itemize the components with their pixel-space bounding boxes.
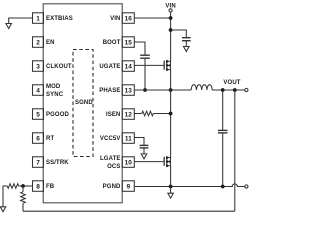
terminal VOUT [245, 88, 248, 91]
pin 15 box [122, 37, 134, 48]
ground symbol at VCC5V cap [141, 154, 147, 159]
svg-text:SYNC: SYNC [46, 92, 64, 98]
capacitor C4 (output) [218, 130, 228, 133]
wire VCC5V cap to ground [143, 148, 145, 154]
svg-text:SS/TRK: SS/TRK [46, 160, 69, 166]
wire inductor to VOUT terminal [212, 89, 245, 91]
ground SGND symbol at FB divider [0, 207, 6, 212]
wire FB resistor to ground [3, 186, 7, 207]
node VOUT cap junction [221, 88, 225, 92]
wire FB line [19, 185, 33, 187]
wire output cap top [222, 90, 224, 130]
svg-text:EN: EN [46, 40, 55, 46]
node boot cap phase junction [143, 88, 147, 92]
pin 9 box [122, 181, 134, 192]
svg-text:1: 1 [36, 16, 40, 23]
svg-text:MOD: MOD [46, 84, 61, 90]
wire Q2 source to PGND [170, 166, 172, 187]
svg-text:11: 11 [125, 136, 132, 143]
wire FB node stub down [22, 186, 24, 192]
node output cap PGND junction [221, 185, 225, 189]
node Q2 source PGND junction [169, 185, 173, 189]
svg-text:PHASE: PHASE [99, 88, 120, 94]
node VIN pin16 junction [169, 16, 173, 20]
node VIN cap junction [169, 28, 173, 32]
pin 8 box [33, 181, 44, 192]
svg-text:VOUT: VOUT [223, 80, 240, 86]
svg-text:6: 6 [36, 136, 40, 143]
svg-text:OCS: OCS [107, 164, 120, 170]
ground SGND symbol at EXTBIAS [6, 24, 12, 29]
pin 10 box [122, 157, 134, 168]
svg-text:16: 16 [125, 16, 133, 23]
resistor R3 (VOUT to FB) [21, 192, 26, 204]
svg-text:VIN: VIN [110, 16, 120, 22]
svg-text:8: 8 [36, 184, 40, 191]
capacitor C1 (input) [182, 38, 191, 41]
wire phase vertical [170, 70, 172, 158]
wire pin9 PGND to terminal with hop [134, 184, 245, 187]
svg-text:15: 15 [125, 40, 133, 47]
svg-text:4: 4 [36, 88, 40, 95]
wire pin11 VCC5V to cap [134, 138, 144, 146]
wire R3 to bottom rail [22, 203, 24, 211]
svg-text:ISEN: ISEN [106, 112, 120, 118]
svg-text:EXTBIAS: EXTBIAS [46, 16, 73, 22]
pin 4 box [33, 85, 44, 96]
wire ISEN resistor to phase node [153, 113, 170, 115]
wire pin10 LGATE to Q2 gate [134, 161, 163, 163]
node ISEN phase junction [169, 112, 173, 116]
node VOUT feedback junction [233, 88, 237, 92]
wire bottom feedback rail [23, 210, 235, 212]
svg-text:VCC5V: VCC5V [100, 136, 121, 142]
svg-text:LGATE: LGATE [100, 156, 121, 162]
ground symbol at PGND [168, 193, 174, 198]
svg-text:9: 9 [126, 184, 130, 191]
svg-text:VIN: VIN [165, 3, 175, 9]
svg-text:5: 5 [36, 112, 40, 119]
capacitor C3 (VCC5V) [140, 145, 149, 148]
svg-text:PGOOD: PGOOD [46, 112, 69, 118]
svg-text:10: 10 [125, 160, 133, 167]
wire PGND ground stub [170, 187, 172, 194]
wire pin14 UGATE to Q1 gate [134, 64, 163, 66]
node phase vertical junction [169, 88, 173, 92]
svg-text:CLKOUT: CLKOUT [46, 64, 72, 70]
pin 4 label MOD SYNC [46, 84, 64, 98]
capacitor C2 (boot) [140, 55, 150, 58]
pin 2 box [33, 37, 44, 48]
svg-text:12: 12 [125, 112, 133, 119]
svg-text:PGND: PGND [103, 184, 121, 190]
IC U1 body [43, 4, 122, 203]
pin 3 box [33, 61, 44, 72]
svg-text:FB: FB [46, 184, 55, 190]
wire VIN vertical [170, 12, 172, 61]
svg-text:RT: RT [46, 136, 54, 142]
svg-text:14: 14 [125, 64, 133, 71]
pin 12 box [122, 109, 134, 120]
wire boot cap to phase [144, 59, 146, 91]
pin 7 box [33, 157, 44, 168]
transistor Q1 (high side NMOS) [164, 60, 170, 71]
terminal output return [245, 185, 248, 188]
svg-text:UGATE: UGATE [99, 64, 120, 70]
pin 14 box [122, 61, 134, 72]
pin 6 box [33, 133, 44, 144]
wire pin12 ISEN [134, 113, 142, 115]
svg-text:13: 13 [125, 88, 133, 95]
wire pin13 PHASE [134, 89, 191, 91]
svg-text:SGND: SGND [75, 100, 93, 106]
wire pin15 BOOT [134, 42, 145, 55]
resistor R2 (FB to ground) [7, 184, 19, 189]
wire output cap bottom [222, 133, 224, 186]
wire pin16 to VIN [134, 17, 170, 19]
wire input cap to ground [185, 41, 187, 47]
svg-text:7: 7 [36, 160, 40, 167]
IC internal dashed SGND region [73, 50, 93, 157]
pin 16 box [122, 13, 134, 23]
svg-text:BOOT: BOOT [103, 40, 121, 46]
pin 5 box [33, 109, 44, 120]
pin 1 box [33, 13, 44, 23]
transistor Q2 (low side NMOS) [164, 156, 170, 167]
pin 10 label LGATE OCS [100, 156, 121, 170]
svg-text:3: 3 [36, 64, 40, 71]
inductor L1 [191, 85, 212, 90]
wire VIN to input cap [171, 30, 187, 37]
svg-text:2: 2 [36, 40, 40, 47]
resistor R1 (ISEN) [142, 111, 154, 116]
pin 13 box [122, 85, 134, 96]
pin 11 box [122, 133, 134, 144]
node FB junction [21, 184, 25, 188]
ground symbol at input cap [184, 47, 190, 52]
wire pin1 to ground [9, 18, 33, 24]
wire feedback vertical from VOUT [234, 90, 236, 211]
terminal VIN [169, 9, 172, 12]
